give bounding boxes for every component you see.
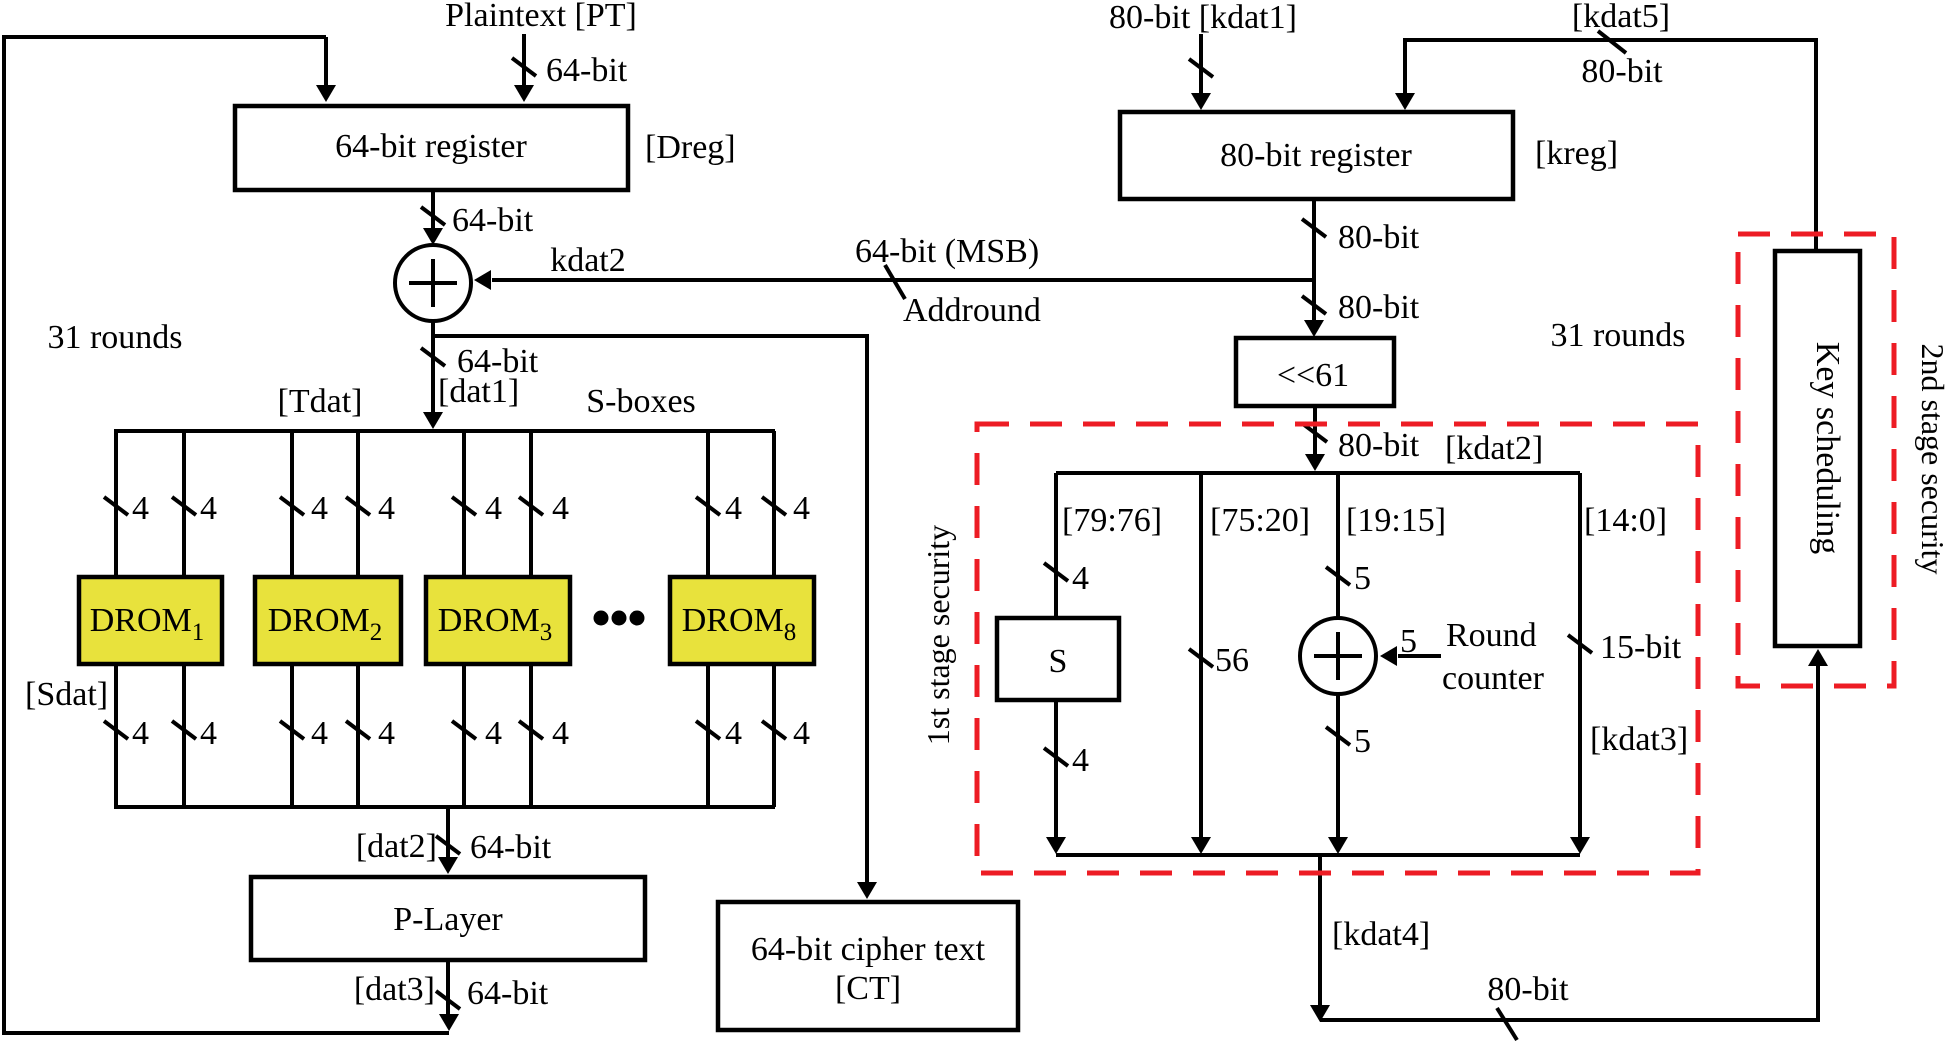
svg-text:4: 4 — [552, 715, 569, 752]
wire sbox out 6 — [519, 664, 569, 807]
wire dat2 — [356, 807, 552, 874]
svg-text:64-bit: 64-bit — [467, 975, 549, 1012]
sbox S — [997, 618, 1119, 700]
label [kdat5] — [1572, 0, 1670, 35]
svg-text:5: 5 — [1354, 723, 1371, 760]
wire sbox out 4 — [346, 664, 395, 807]
wire sbox out 2 — [172, 664, 217, 807]
wire sbox out 7 — [696, 664, 742, 807]
label 31 rounds right — [1550, 317, 1685, 354]
svg-text:80-bit: 80-bit — [1581, 53, 1663, 90]
svg-text:64-bit: 64-bit — [452, 202, 534, 239]
svg-text:1st stage security: 1st stage security — [920, 525, 956, 745]
svg-text:4: 4 — [378, 490, 395, 527]
svg-text:31 rounds: 31 rounds — [1550, 317, 1685, 354]
label kdat2 — [550, 242, 626, 279]
svg-text:4: 4 — [793, 715, 810, 752]
svg-text:56: 56 — [1215, 642, 1249, 679]
svg-text:4: 4 — [378, 715, 395, 752]
svg-text:[kdat5]: [kdat5] — [1572, 0, 1670, 35]
wire XOR2 output — [1326, 694, 1371, 854]
svg-text:80-bit [kdat1]: 80-bit [kdat1] — [1109, 0, 1297, 36]
wire sbox out 3 — [280, 664, 328, 807]
label [14:0] — [1584, 502, 1667, 539]
wire sbox in 5 — [452, 431, 502, 577]
svg-text:4: 4 — [1072, 560, 1089, 597]
svg-text:kdat2: kdat2 — [550, 242, 626, 279]
svg-text:S: S — [1049, 643, 1068, 680]
svg-text:4: 4 — [200, 715, 217, 752]
sbox DROM3 — [426, 577, 570, 664]
svg-text:4: 4 — [725, 490, 742, 527]
svg-text:[Sdat]: [Sdat] — [25, 676, 108, 713]
label Addround — [903, 292, 1041, 329]
wire sbox out 8 — [762, 664, 810, 807]
wire kdat5 feedback — [1395, 31, 1816, 251]
label [kreg] — [1535, 135, 1618, 172]
wire sbox in 6 — [519, 431, 569, 577]
label [75:20] — [1210, 502, 1310, 539]
wire sbox in 1 — [104, 431, 149, 577]
label [Dreg] — [645, 129, 736, 166]
boundary 1st stage security dashed — [977, 424, 1698, 873]
wire sbox in 8 — [762, 431, 810, 577]
svg-text:P-Layer: P-Layer — [393, 901, 503, 938]
svg-text:<<61: <<61 — [1277, 357, 1349, 394]
svg-text:2nd stage security: 2nd stage security — [1915, 343, 1945, 574]
wire key 19:15 — [1326, 473, 1371, 617]
wire kdat2 Addround — [474, 265, 1314, 299]
svg-text:64-bit (MSB): 64-bit (MSB) — [855, 233, 1039, 270]
label S-boxes — [586, 383, 696, 420]
svg-text:80-bit register: 80-bit register — [1220, 137, 1412, 174]
svg-text:[14:0]: [14:0] — [1584, 502, 1667, 539]
register kreg 80-bit — [1120, 112, 1513, 199]
svg-text:S-boxes: S-boxes — [586, 383, 696, 420]
svg-text:4: 4 — [1072, 742, 1089, 779]
svg-text:15-bit: 15-bit — [1600, 629, 1682, 666]
wire round counter input — [1380, 623, 1441, 666]
bus key state top — [1056, 471, 1580, 475]
svg-text:4: 4 — [200, 490, 217, 527]
label 64-bit (MSB) — [855, 233, 1039, 270]
wire key 75:20 — [1189, 473, 1249, 854]
sbox DROM1 — [79, 577, 222, 664]
label 31 rounds left — [47, 319, 182, 356]
svg-text:4: 4 — [725, 715, 742, 752]
svg-text:4: 4 — [485, 490, 502, 527]
register Dreg 64-bit — [235, 106, 628, 190]
bus Sdat bottom — [114, 805, 775, 809]
svg-text:64-bit: 64-bit — [546, 52, 628, 89]
wire XOR1 output dat1 — [421, 321, 539, 429]
svg-text:4: 4 — [311, 490, 328, 527]
bus key state bottom — [1056, 853, 1580, 857]
wire feedback loop dat3 to Dreg register — [4, 37, 449, 1033]
boundary 2nd stage security dashed — [1738, 234, 1894, 686]
svg-text:5: 5 — [1400, 623, 1417, 660]
node 80-bit [kdat1] — [1109, 0, 1297, 36]
sbox DROM2 — [255, 577, 401, 664]
svg-text:[Tdat]: [Tdat] — [278, 383, 363, 420]
label 64-bit PT — [546, 52, 628, 89]
svg-text:[kdat3]: [kdat3] — [1590, 721, 1688, 758]
wire sbox in 2 — [172, 431, 217, 577]
node Plaintext [PT] — [445, 0, 637, 34]
svg-text:80-bit: 80-bit — [1338, 427, 1420, 464]
bus Tdat top — [114, 429, 775, 433]
svg-text:Addround: Addround — [903, 292, 1041, 329]
svg-text:4: 4 — [311, 715, 328, 752]
label [19:15] — [1346, 502, 1446, 539]
svg-text:[79:76]: [79:76] — [1062, 502, 1162, 539]
svg-text:4: 4 — [485, 715, 502, 752]
svg-text:[dat1]: [dat1] — [438, 373, 519, 410]
block shift left 61 — [1236, 338, 1394, 406]
wire kdat1 input — [1189, 34, 1213, 110]
svg-text:[19:15]: [19:15] — [1346, 502, 1446, 539]
svg-text:Key scheduling: Key scheduling — [1809, 342, 1846, 554]
label Round counter — [1442, 617, 1545, 697]
svg-text:80-bit: 80-bit — [1338, 219, 1420, 256]
label [79:76] — [1062, 502, 1162, 539]
ellipsis dots — [594, 611, 645, 626]
svg-text:64-bit cipher text: 64-bit cipher text — [751, 931, 986, 968]
wire sbox out 1 — [104, 664, 149, 807]
svg-text:[dat2]: [dat2] — [356, 828, 437, 865]
wire key 14:0 — [1568, 473, 1688, 854]
wire branch to cipher text CT — [433, 336, 877, 899]
svg-text:4: 4 — [552, 490, 569, 527]
svg-text:31 rounds: 31 rounds — [47, 319, 182, 356]
svg-text:64-bit register: 64-bit register — [335, 128, 527, 165]
wire Dreg to XOR1 — [421, 190, 534, 245]
label [Tdat] — [278, 383, 363, 420]
wire kdat4 to key scheduling — [1320, 649, 1828, 1040]
block P-Layer — [251, 877, 645, 960]
label 1st stage security — [920, 525, 956, 745]
svg-text:4: 4 — [132, 490, 149, 527]
svg-text:[CT]: [CT] — [835, 970, 901, 1007]
label 80-bit kdat5 — [1581, 53, 1663, 90]
wire dat3 — [354, 960, 549, 1031]
svg-text:4: 4 — [793, 490, 810, 527]
svg-text:[kdat2]: [kdat2] — [1445, 430, 1543, 467]
svg-text:80-bit: 80-bit — [1487, 971, 1569, 1008]
label 2nd stage security — [1915, 343, 1945, 574]
block 64-bit cipher text CT — [718, 902, 1018, 1030]
svg-text:[Dreg]: [Dreg] — [645, 129, 736, 166]
wire sbox in 3 — [280, 431, 328, 577]
svg-text:[75:20]: [75:20] — [1210, 502, 1310, 539]
svg-text:[kreg]: [kreg] — [1535, 135, 1618, 172]
wire kreg output — [1302, 199, 1420, 337]
svg-text:[dat3]: [dat3] — [354, 971, 435, 1008]
wire key 79:76 — [1044, 473, 1089, 618]
wire kdat4 — [1310, 855, 1430, 1022]
svg-text:4: 4 — [132, 715, 149, 752]
xor U1 Addround — [395, 245, 471, 321]
svg-text:64-bit: 64-bit — [470, 829, 552, 866]
svg-text:counter: counter — [1442, 660, 1545, 697]
svg-text:Round: Round — [1446, 617, 1537, 654]
wire sbox in 4 — [346, 431, 395, 577]
svg-text:Plaintext [PT]: Plaintext [PT] — [445, 0, 637, 34]
svg-text:[kdat4]: [kdat4] — [1332, 916, 1430, 953]
wire PT input — [512, 34, 536, 102]
wire sbox in 7 — [696, 431, 742, 577]
wire S output — [1044, 700, 1089, 854]
svg-text:5: 5 — [1354, 560, 1371, 597]
sbox DROM8 — [670, 577, 814, 664]
xor U2 round counter add — [1300, 618, 1376, 694]
wire sbox out 5 — [452, 664, 502, 807]
label [Sdat] — [25, 676, 108, 713]
wire kdat2 to key state — [1303, 406, 1543, 471]
svg-text:80-bit: 80-bit — [1338, 289, 1420, 326]
block Key scheduling — [1775, 251, 1860, 646]
